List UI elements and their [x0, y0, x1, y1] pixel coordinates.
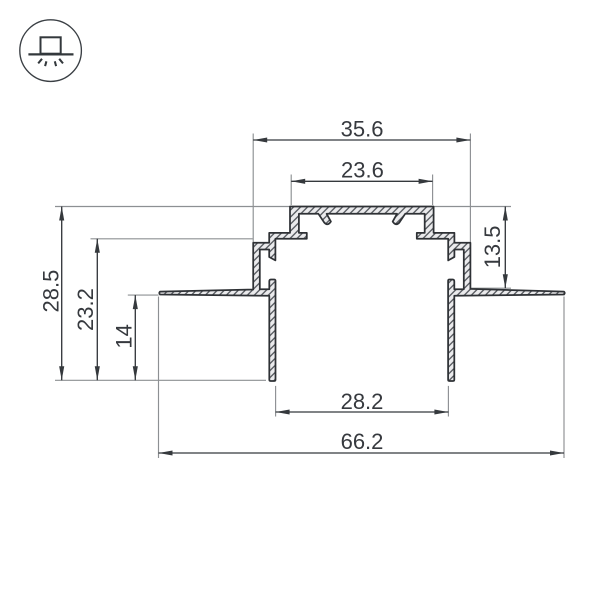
- dimension lines and arrows (dark): [62, 140, 564, 453]
- arrow 23.2 top: [95, 239, 100, 253]
- ext line 14 top: [128, 294, 159, 296]
- arrow 28.2 left: [276, 409, 290, 414]
- ext line 23.6 right: [432, 175, 434, 206]
- arrow 28.5 bottom: [59, 366, 64, 380]
- ext line cap-top left (28.5 top): [55, 206, 290, 208]
- dim line 13.5: [504, 207, 506, 289]
- svg-text:14: 14: [111, 324, 136, 348]
- ext line 28.2 right: [447, 386, 449, 417]
- ext line cap-top right (13.5 top): [435, 206, 512, 208]
- dim line 28.5: [61, 207, 63, 381]
- dim line 28.2: [276, 411, 449, 413]
- dim line 14: [134, 295, 136, 380]
- arrow 28.2 right: [434, 409, 448, 414]
- ext line 35.6 right: [469, 134, 471, 243]
- svg-text:66.2: 66.2: [341, 429, 384, 454]
- ext line bottom (legs bottom level): [55, 379, 266, 381]
- arrow 13.5 top: [503, 207, 508, 221]
- arrow 14 bottom: [133, 366, 138, 380]
- dim line 35.6: [253, 139, 470, 141]
- icon: recessed luminaire symbol circle: [20, 20, 82, 82]
- arrow 14 top: [133, 295, 138, 309]
- arrow 66.2 left: [159, 450, 173, 455]
- ext line 66.2 left: [158, 297, 160, 459]
- ext line 66.2 right: [563, 297, 565, 459]
- arrow 28.5 top: [59, 207, 64, 221]
- icon: fixture box: [41, 37, 61, 53]
- arrow 23.6 right: [419, 179, 433, 184]
- svg-text:35.6: 35.6: [341, 116, 384, 141]
- icon: light ray 1: [38, 59, 42, 64]
- dim line 23.2: [96, 239, 98, 380]
- svg-text:23.6: 23.6: [341, 158, 384, 183]
- ext line 23.6 left: [290, 175, 292, 206]
- svg-text:13.5: 13.5: [480, 225, 505, 268]
- dim line 23.6: [291, 180, 432, 182]
- extension lines (gray): [55, 134, 564, 459]
- icon: light ray 3: [55, 61, 56, 66]
- arrow 23.2 bottom: [95, 366, 100, 380]
- dim line 66.2: [159, 452, 565, 454]
- arrow 66.2 right: [550, 450, 564, 455]
- profile cross-section body (hatched aluminium extrusion): [159, 207, 564, 382]
- ext line 35.6 left: [252, 134, 254, 243]
- icon: ceiling line: [28, 53, 73, 55]
- arrow 35.6 right: [456, 137, 470, 142]
- ext line 13.5 bottom: [471, 287, 511, 289]
- icon: light ray 2: [45, 61, 46, 66]
- ext line 23.2 top: [91, 238, 253, 240]
- svg-text:28.5: 28.5: [38, 270, 63, 313]
- arrow 23.6 left: [291, 179, 305, 184]
- icon: light ray 4: [59, 59, 63, 64]
- ext line 28.2 left: [275, 386, 277, 417]
- svg-text:28.2: 28.2: [341, 389, 384, 414]
- arrow 35.6 left: [253, 137, 267, 142]
- arrow 13.5 bottom: [503, 274, 508, 288]
- svg-text:23.2: 23.2: [73, 288, 98, 331]
